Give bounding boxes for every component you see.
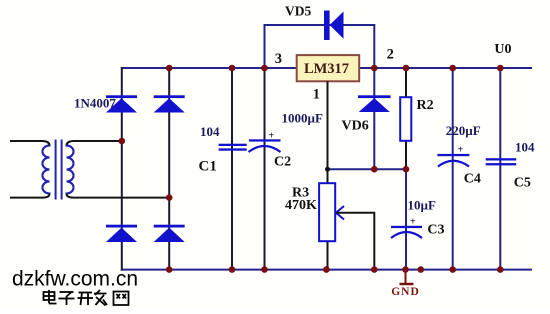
wire VD5 left riser [264,25,266,68]
junction rail R2 [403,65,410,72]
capacitor C4 negative plate (arc) [438,161,469,167]
junction secondary top to branch1 [119,138,126,145]
wire capacitor C2 branch [264,67,266,271]
svg-text:LM317: LM317 [304,61,349,77]
svg-text:470K: 470K [285,198,317,213]
capacitor C2 positive plate [249,139,281,141]
svg-text:+: + [410,217,416,228]
watermark 发 glyph [94,290,107,306]
wire capacitor C1 branch [231,67,233,271]
ground symbol stub [405,270,407,284]
svg-text:+: + [269,131,275,142]
transformer T1 secondary winding [67,141,170,198]
junction bottom C1 [229,266,236,273]
wire capacitor C4 branch [452,67,454,271]
svg-text:10µF: 10µF [408,198,436,213]
svg-text:104: 104 [515,140,535,155]
watermark 网 glyph [114,292,129,306]
diode D4 (bridge bottom-right) [154,225,185,242]
svg-text:+: + [458,145,464,156]
watermark 子 glyph [59,292,75,305]
potentiometer R3 top lead continues pin1 wire [327,241,329,270]
IC U1 LM317 body [297,55,360,81]
capacitor C3 positive plate [391,226,422,228]
wire VD5 right riser [373,25,375,68]
svg-text:1000µF: 1000µF [282,111,323,126]
capacitor C3 negative plate (arc) [391,232,422,238]
svg-text:1N4007: 1N4007 [74,96,116,111]
junction secondary bottom to branch2 [166,194,173,201]
diode D3 (bridge bottom-left) [106,225,137,242]
capacitor C1 plates [219,144,247,151]
junction bottom C5 [497,266,504,273]
wire bridge branch 1 [121,67,123,271]
junction ADJ R2/C3 [403,166,410,173]
wire top rail (+) [121,67,532,69]
svg-text:C5: C5 [514,176,531,191]
diode VD5 [324,11,344,41]
wire VD5 top horizontal [264,24,376,26]
junction bottom C4 [449,266,456,273]
svg-text:220µF: 220µF [446,123,481,138]
junction ADJ pin1 (black) [325,167,330,172]
wire bottom rail (0V) [121,269,532,271]
transformer T1 core [55,140,57,200]
capacitor C4 positive plate [437,154,469,156]
junction bottom C2 [261,266,268,273]
ground symbol bar [400,283,414,286]
junction rail C5 [497,65,504,72]
wire VD6 branch [373,68,375,169]
transformer T1 primary coil overlay [43,146,50,194]
wire ADJ horizontal [328,168,407,170]
wire R2 branch [405,67,407,169]
junction bottom wiper [371,266,378,273]
svg-text:2: 2 [387,47,394,63]
diode D1 (bridge top-left) [106,95,137,112]
capacitor C2 negative plate (arc) [249,146,281,152]
svg-text:C3: C3 [427,223,444,238]
junction rail VD5/VD6 pin2 [371,65,378,72]
potentiometer R3 wiper arrow [336,206,344,220]
junction bottom R3 [323,266,330,273]
wire R3 wiper to ground [336,213,374,270]
wire C3 branch [405,169,407,270]
junction bottom C3/GND [402,266,409,273]
svg-text:dzkfw.com.cn: dzkfw.com.cn [12,268,138,291]
svg-text:C4: C4 [464,172,481,187]
svg-text:VD5: VD5 [285,4,311,19]
svg-text:1: 1 [313,86,320,102]
svg-text:U0: U0 [494,42,511,57]
junction rail C2/pin3/VD5 [261,65,268,72]
svg-text:R2: R2 [417,98,434,113]
wire capacitor C5 branch [499,67,501,271]
junction rail branch2 [166,65,173,72]
transformer T1 secondary coil overlay [67,146,74,194]
svg-text:3: 3 [275,51,282,67]
junction rail C4 [449,65,456,72]
svg-text:C2: C2 [274,155,291,170]
resistor R2 body [400,97,411,141]
transformer T1 primary winding [10,141,50,198]
diode D2 (bridge top-right) [154,95,185,112]
capacitor C5 plates [486,158,517,165]
watermark 开 glyph [78,293,94,306]
junction bottom extra [418,266,425,273]
svg-text:GND: GND [391,286,420,298]
wire bridge branch 2 [168,67,170,271]
svg-text:104: 104 [200,124,220,139]
junction bottom branch2 [166,266,173,273]
potentiometer R3 body [319,183,335,241]
diode VD6 [358,95,391,112]
junction rail C1 [229,65,236,72]
watermark 电 glyph [44,290,57,304]
svg-text:VD6: VD6 [342,119,369,134]
junction ADJ VD6 [371,166,378,173]
wire pin1 ADJ vertical [327,81,329,183]
svg-text:C1: C1 [199,159,217,175]
